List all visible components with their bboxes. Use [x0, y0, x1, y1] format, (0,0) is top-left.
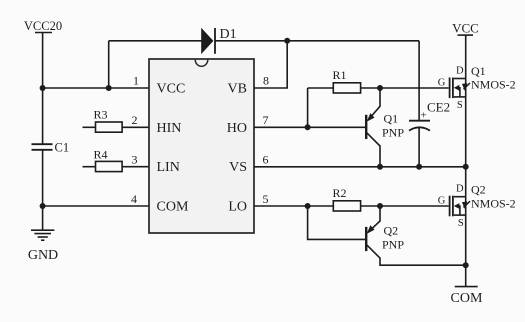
- svg-text:COM: COM: [157, 200, 189, 215]
- node junction Q2 emitter / main rail: [463, 262, 469, 268]
- svg-text:VCC: VCC: [452, 21, 479, 36]
- svg-text:NMOS-2: NMOS-2: [471, 78, 516, 92]
- wire COM row to chip pin 4: [43, 205, 149, 207]
- svg-text:GND: GND: [28, 248, 58, 263]
- svg-text:D: D: [456, 66, 464, 77]
- svg-text:VB: VB: [228, 82, 247, 97]
- svg-text:1: 1: [133, 74, 139, 88]
- svg-text:G: G: [438, 78, 446, 89]
- resistor R2: [254, 186, 380, 211]
- svg-text:Q2: Q2: [471, 183, 486, 197]
- svg-text:NMOS-2: NMOS-2: [471, 196, 516, 210]
- svg-text:G: G: [438, 196, 446, 207]
- node junction COM row / GND: [40, 203, 46, 209]
- svg-text:VS: VS: [229, 160, 247, 175]
- wire top bootstrap rail to D1 anode: [109, 40, 202, 42]
- ground GND: [28, 206, 58, 263]
- transistor Q2 PNP: [366, 206, 466, 265]
- svg-text:R4: R4: [94, 147, 108, 161]
- power label VCC20: [24, 19, 62, 33]
- resistor R3: [83, 108, 150, 133]
- svg-text:R1: R1: [333, 68, 347, 82]
- power label COM (bottom right): [451, 287, 483, 306]
- transistor Q2 NMOS-2: [438, 183, 516, 230]
- svg-text:HO: HO: [227, 121, 247, 136]
- node junction at VCC20/pin1 row: [40, 85, 46, 91]
- svg-text:Q2: Q2: [384, 224, 399, 238]
- wire branch up to R1: [307, 88, 309, 127]
- svg-text:R3: R3: [94, 108, 108, 122]
- wire gate drive to Q2 NMOS gate: [380, 205, 449, 207]
- wire VCC20 rail down to C1: [42, 33, 44, 144]
- svg-text:S: S: [458, 218, 464, 229]
- svg-text:R2: R2: [333, 186, 347, 200]
- svg-text:CE2: CE2: [427, 100, 450, 115]
- capacitor C1: [32, 141, 70, 155]
- transistor Q1 PNP: [366, 88, 404, 167]
- node junction pin1 row / top riser: [106, 85, 112, 91]
- node junction R2 / Q2 collector / gate: [377, 203, 383, 209]
- node junction VS row / half-bridge midpoint: [463, 164, 469, 170]
- svg-text:LIN: LIN: [157, 160, 180, 175]
- svg-text:Q1: Q1: [384, 112, 399, 126]
- node junction top rail / VB riser: [284, 38, 290, 44]
- wire pin1 row from left rail to chip: [43, 87, 149, 89]
- node junction pin7 row / R1 branch: [305, 124, 311, 130]
- wire half-bridge main rail: [465, 35, 467, 287]
- resistor R1: [308, 68, 380, 93]
- svg-text:COM: COM: [451, 291, 483, 306]
- node junction VS row / Q1 emitter: [377, 164, 383, 170]
- wire riser to top bootstrap wire: [108, 41, 110, 88]
- node junction VS row / CE2: [416, 164, 422, 170]
- svg-text:3: 3: [132, 153, 138, 167]
- svg-text:HIN: HIN: [157, 121, 182, 136]
- svg-text:C1: C1: [55, 141, 70, 155]
- transistor Q1 NMOS-2: [438, 64, 516, 111]
- wire D1 cathode to CE2 corner: [215, 40, 419, 42]
- svg-text:6: 6: [263, 153, 269, 167]
- wire gate drive to Q1 NMOS gate: [380, 87, 449, 89]
- svg-text:2: 2: [132, 113, 138, 127]
- svg-text:D: D: [456, 184, 464, 195]
- svg-text:VCC: VCC: [157, 82, 186, 97]
- svg-text:8: 8: [263, 74, 269, 88]
- svg-text:5: 5: [263, 192, 269, 206]
- node junction pin5 row / Q2 base branch: [305, 203, 311, 209]
- wire branch down to Q2 base: [308, 206, 366, 239]
- svg-text:D1: D1: [220, 27, 237, 42]
- svg-text:4: 4: [131, 192, 137, 206]
- svg-text:PNP: PNP: [382, 126, 404, 140]
- node junction R1 / Q1 emitter / gate wire: [377, 85, 383, 91]
- wire C1 bottom to COM row: [42, 150, 44, 206]
- IC U1 body: [149, 59, 254, 233]
- wire pin 7 row to Q1 base: [254, 126, 365, 128]
- wire pin 8 stub and riser to top rail: [254, 41, 287, 88]
- svg-text:S: S: [457, 100, 463, 111]
- svg-text:LO: LO: [228, 200, 247, 215]
- svg-text:Q1: Q1: [471, 64, 486, 78]
- diode D1: [201, 27, 236, 54]
- svg-text:+: +: [421, 110, 427, 122]
- svg-text:VCC20: VCC20: [24, 19, 62, 33]
- resistor R4: [83, 147, 150, 171]
- wire VS row from chip to NMOS midpoint: [254, 166, 466, 168]
- capacitor CE2: [409, 41, 450, 167]
- svg-text:PNP: PNP: [382, 238, 404, 252]
- power label VCC (top right): [452, 21, 479, 36]
- svg-text:7: 7: [263, 113, 269, 127]
